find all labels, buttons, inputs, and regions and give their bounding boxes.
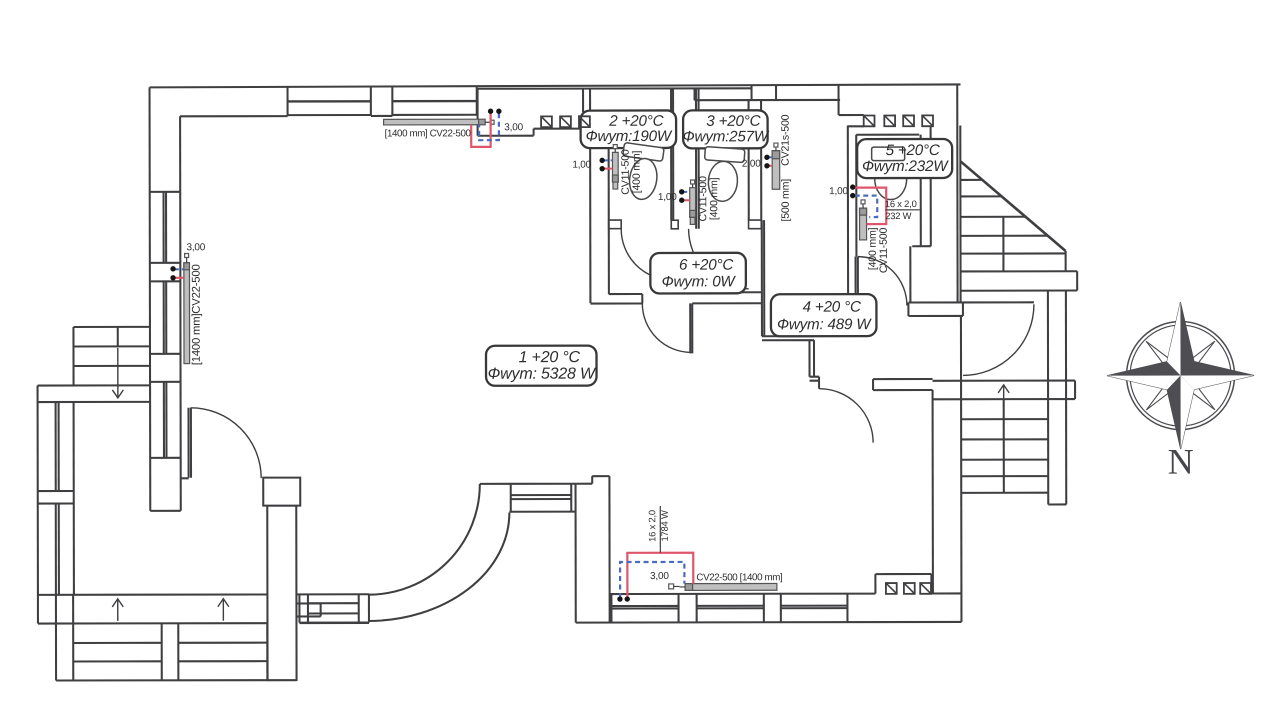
hatch flue A sq3 over box: [579, 116, 590, 127]
svg-text:CV11-500: CV11-500: [878, 228, 890, 274]
label text room3: [683, 113, 770, 146]
wall right main: [932, 390, 934, 593]
label box room4: [771, 294, 877, 336]
door room4 arc: [819, 389, 873, 443]
wall bottom pillars: [611, 594, 847, 623]
compass N letter: [1168, 442, 1194, 482]
label R5: [742, 114, 792, 221]
wall room6 south east part: [692, 292, 762, 303]
wall left window glass: [164, 192, 167, 458]
label text room2: [586, 113, 673, 145]
label R6: [829, 186, 920, 273]
stairs west down arrow: [112, 348, 123, 398]
stair east columns: [1048, 291, 1066, 505]
porch slab arrows: [112, 599, 229, 621]
wall bottom inner: [610, 592, 962, 595]
porch slab verticals: [56, 595, 73, 624]
label box room1: [486, 346, 597, 386]
wall corridor west jog: [478, 89, 534, 136]
radiator R7 bottom CV22-500: [669, 583, 777, 590]
wall curved outer arc: [368, 513, 509, 621]
wall chamfer: [961, 161, 1066, 251]
window vestibule west: [480, 484, 576, 512]
wall chamfer step: [1066, 251, 1078, 291]
label R2: [186, 242, 206, 365]
window W2 top wall: [392, 87, 476, 116]
pipe leader R7: [646, 506, 670, 553]
door jamb room3 right: [749, 220, 762, 229]
wall room5 west: [848, 126, 857, 305]
stair landing band1: [961, 271, 1077, 291]
wall W step2: [810, 377, 820, 389]
pipes R2: [170, 266, 184, 280]
label box room3: [683, 110, 768, 148]
pipes R3: [599, 158, 612, 172]
wall left sill lines: [150, 192, 181, 511]
wall annex glass: [56, 402, 59, 595]
label R7: [650, 571, 783, 584]
wall annex top band: [38, 385, 151, 402]
hatch band flue A: [534, 116, 590, 128]
wall outer top: [150, 84, 961, 87]
stairs south flights: [56, 623, 296, 680]
svg-text:1 +20 °C: 1 +20 °C: [519, 349, 581, 366]
svg-text:2,00: 2,00: [742, 159, 761, 170]
window bottom glass: [611, 606, 847, 609]
door room5 leaf: [856, 257, 858, 305]
wall bottom outer: [299, 622, 961, 623]
label box room2: [581, 110, 677, 148]
wall annex outer: [37, 386, 39, 624]
wall room3 top recess: [695, 88, 841, 100]
wall curved inner arc: [368, 484, 480, 595]
wall room5 east: [910, 126, 931, 302]
svg-text:1784 W: 1784 W: [659, 510, 670, 541]
radiator R5 CV21s-500: [772, 143, 780, 189]
stairs lower treads: [961, 399, 1066, 505]
svg-text:[1400 mm]: [1400 mm]: [191, 314, 203, 366]
svg-text:N: N: [1168, 442, 1194, 482]
door jamb room2: [609, 220, 622, 229]
wall room5 north inner: [856, 134, 919, 136]
porch slab band: [38, 594, 369, 623]
door stair arc: [963, 304, 1034, 375]
radiator R4 room3 CV11-500: [690, 180, 696, 224]
sink room5: [872, 147, 905, 161]
pipes R5: [764, 155, 772, 169]
label box room5: [857, 139, 952, 178]
wall W room6-room4: [762, 220, 765, 336]
pipes R6: [850, 184, 886, 224]
wall W step1: [762, 336, 814, 377]
label R1: [385, 122, 524, 139]
label text room5: [862, 142, 949, 175]
wall right facade lower: [960, 316, 963, 622]
svg-text:Фwym: 489 W: Фwym: 489 W: [777, 316, 872, 333]
svg-text:1,00: 1,00: [658, 192, 677, 203]
svg-text:Фwym:257W: Фwym:257W: [683, 128, 770, 145]
stairs lower arrow: [998, 385, 1009, 399]
pipes R1: [471, 109, 501, 147]
svg-text:[1400 mm] CV22-500: [1400 mm] CV22-500: [385, 128, 472, 139]
radiator R1 top CV22-500: [384, 119, 495, 125]
toilet room3: [702, 147, 745, 203]
wall room2 east thin: [671, 88, 673, 220]
svg-text:CV22-500 [1400 mm]: CV22-500 [1400 mm]: [696, 572, 783, 583]
door D1 arc: [191, 408, 262, 479]
pipes R7: [617, 553, 693, 602]
pipes R4: [679, 189, 690, 203]
svg-text:16 x 2,0: 16 x 2,0: [885, 198, 917, 209]
wall pillar C: [576, 476, 610, 622]
door room6 arc: [642, 303, 691, 352]
wall room3 east: [749, 100, 762, 220]
wall block rooms3-4 top: [752, 85, 777, 100]
svg-text:3,00: 3,00: [504, 122, 523, 133]
svg-text:6 +20°C: 6 +20°C: [679, 257, 734, 274]
wall pillar top: [371, 87, 393, 116]
wall pillar A: [263, 478, 300, 681]
svg-text:3,00: 3,00: [650, 571, 669, 582]
door room2 arc: [621, 229, 672, 280]
door jamb niche: [671, 220, 678, 229]
sink bowl room5: [875, 158, 907, 200]
wall stub room1-porch: [181, 477, 189, 479]
door room5 arc: [858, 257, 907, 306]
wall room3 west thin: [696, 88, 699, 228]
door room3 arc: [689, 229, 749, 289]
svg-text:[400 mm]: [400 mm]: [631, 150, 643, 193]
svg-text:Фwym:232W: Фwym:232W: [862, 158, 949, 175]
svg-text:Фwym: 0W: Фwym: 0W: [662, 273, 737, 290]
label box room6: [650, 253, 746, 294]
wall stair west: [957, 85, 960, 302]
door room6 leaf: [690, 303, 692, 353]
wall room4 east band: [873, 379, 933, 390]
stairs west treads: [73, 327, 150, 386]
radiator R3 room2 CV11-500: [612, 145, 618, 189]
svg-text:[400 mm]: [400 mm]: [708, 177, 720, 220]
window W1 top wall: [288, 87, 371, 116]
label R3: [572, 149, 642, 195]
label text room1: [488, 349, 597, 383]
wall step room5 nw: [838, 85, 840, 115]
compass rose: [1107, 302, 1254, 449]
svg-text:5 +20°C: 5 +20°C: [886, 142, 941, 159]
svg-text:Фwym: 5328 W: Фwym: 5328 W: [488, 366, 597, 383]
svg-text:1,00: 1,00: [572, 160, 591, 171]
porch slab notch: [296, 603, 321, 616]
wall low parapet B: [299, 594, 369, 622]
svg-text:4 +20 °C: 4 +20 °C: [803, 299, 862, 316]
wall bottom notch flue: [875, 574, 931, 594]
wall room2 top verticals: [583, 89, 590, 113]
svg-text:16 x 2,0: 16 x 2,0: [646, 510, 657, 542]
radiator R2 left CV22-500: [184, 253, 190, 363]
wall room1-room2 long: [589, 112, 591, 303]
toilet room2: [617, 142, 664, 201]
wall room2 west inner: [590, 129, 609, 295]
label text room4: [777, 299, 872, 334]
label text room6: [662, 257, 737, 291]
wall top-left corner block: [150, 87, 289, 511]
radiator R6 room5 CV11-500: [860, 200, 867, 240]
stairs upper treads: [961, 180, 1066, 272]
svg-text:[500 mm]: [500 mm]: [780, 179, 792, 222]
label R4: [658, 176, 720, 222]
wall room6 south: [590, 294, 642, 304]
hatch band flue B: [839, 115, 933, 126]
svg-text:232 W: 232 W: [885, 210, 911, 221]
wall annex sill band: [38, 491, 74, 504]
svg-text:3,00: 3,00: [186, 242, 205, 253]
svg-text:CV22-500: CV22-500: [191, 264, 203, 313]
svg-text:CV21s-500: CV21s-500: [780, 114, 792, 166]
svg-text:1,00: 1,00: [829, 186, 848, 197]
svg-text:Фwym:190W: Фwym:190W: [586, 128, 673, 145]
wall annex inner: [73, 402, 75, 594]
wall room5-stair south: [908, 302, 1034, 316]
stair landing band2: [933, 381, 1076, 400]
door D1 leaf: [188, 408, 191, 478]
wall corridor top inner: [478, 87, 752, 90]
